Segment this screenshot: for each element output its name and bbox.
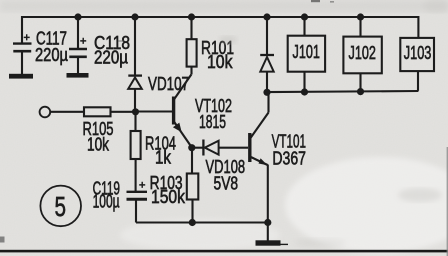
wire: bottom rail left [136,221,268,223]
svg-text:+: + [139,180,145,192]
svg-text:100µ: 100µ [93,192,120,212]
svg-text:D367: D367 [272,149,306,169]
node: junction dot J102 bottom [357,88,364,95]
node: junction dot VD107/top rail [131,13,138,20]
right edge scan line [447,147,448,256]
node: junction dot R101/top rail [188,13,195,20]
svg-text:J103: J103 [404,43,432,63]
diode VD107 [128,17,189,112]
node: junction dot base VT102 [132,108,139,115]
svg-text:+: + [24,32,30,44]
svg-text:10k: 10k [87,135,110,155]
transistor VT102 [137,75,232,147]
left edge mark [0,237,5,243]
page rule line at bottom [0,250,448,253]
ground (C118) [67,73,89,78]
wire: input to R105 [50,111,84,113]
input terminal [40,107,51,118]
svg-text:1815: 1815 [199,112,226,132]
node: junction dot J101 top [301,13,308,20]
svg-text:5: 5 [55,191,67,222]
node: junction dot C118/top rail [74,13,81,20]
faint smudges [219,0,448,248]
svg-text:1k: 1k [155,148,172,168]
section badge 5 [40,186,81,227]
relay J103 [400,38,434,91]
resistor R104 [131,112,176,192]
resistor R105 [83,107,136,154]
svg-text:150k: 150k [151,187,186,207]
node: junction dot J101 bottom [301,88,308,95]
diode (relay clamp, unlabeled) [260,17,274,92]
resistor R103 [150,148,199,223]
svg-text:220µ: 220µ [35,45,68,65]
ground (C117) [9,74,33,79]
node: junction dot clamp diode/relay rail [263,89,270,96]
node: junction dot emitter VT101/bottom rail [264,219,271,226]
svg-text:J101: J101 [293,42,320,62]
wire: top supply rail [22,17,418,38]
relay J102 [343,17,381,92]
node: junction dot VD108/R103/emitter VT102 [188,144,195,151]
node: junction dot J102 top [357,13,364,20]
svg-text:220µ: 220µ [94,48,128,68]
capacitor C117 [13,16,68,74]
ground (main) [256,223,289,246]
svg-text:10k: 10k [207,52,233,72]
capacitor C119 [93,179,147,223]
resistor R101 [187,17,234,75]
svg-text:VD107: VD107 [148,74,189,94]
svg-text:J102: J102 [349,43,376,63]
transistor VT101 [250,92,306,222]
wire: relay bottom rail [267,91,418,92]
diode VD108 [192,140,248,194]
specks [118,0,334,42]
node: junction dot clamp diode/top rail [263,13,270,20]
svg-text:+: + [80,36,86,48]
svg-text:5V8: 5V8 [214,174,239,194]
relay J101 [288,17,325,92]
node: junction dot R103/bottom rail [189,219,196,226]
capacitor C118 [69,17,130,73]
